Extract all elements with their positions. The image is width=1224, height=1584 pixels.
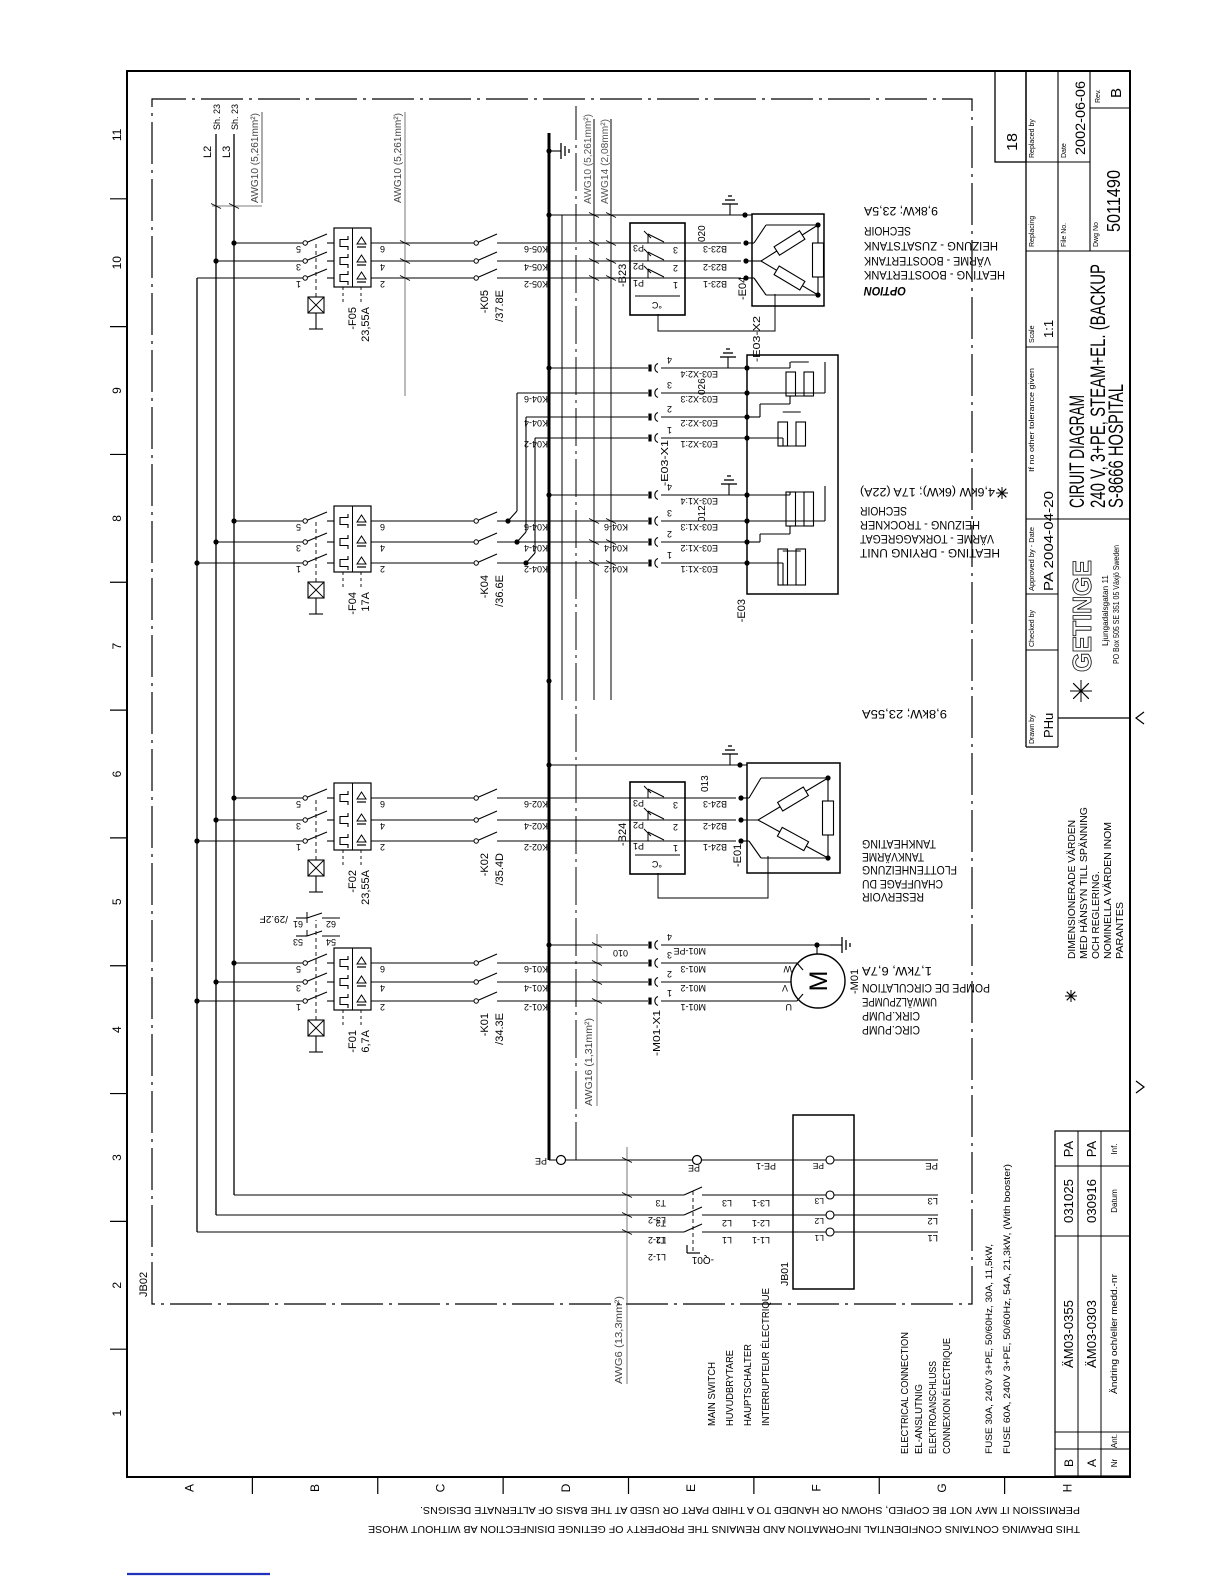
E03 bank X1 wiring [744,560,749,565]
E03 heater bank X2 resistors [778,422,788,446]
fuse -F02 breaker box [334,783,371,850]
incoming supply stubs L1 L2 L3 PE [854,1231,938,1233]
svg-text:B: B [308,1484,322,1492]
title block sheet-total box 18 [995,71,1026,162]
svg-text:P1: P1 [633,278,644,288]
svg-text:VÄRME - TORKAGGREGAT: VÄRME - TORKAGGREGAT [859,532,994,546]
svg-text:G: G [935,1483,949,1492]
svg-text:9,8kW; 23,5A: 9,8kW; 23,5A [864,204,938,218]
svg-text:9: 9 [110,387,124,394]
revision table outline [1055,1131,1130,1476]
svg-text:K04-6: K04-6 [604,522,628,532]
svg-text:6: 6 [380,799,385,809]
svg-text:E03-X1:3: E03-X1:3 [680,522,718,532]
svg-text:-F04: -F04 [347,592,359,615]
svg-text:013: 013 [700,775,711,792]
svg-text:F: F [810,1484,824,1491]
thermostat -B24 box [630,782,685,874]
svg-text:/37.8E: /37.8E [494,290,506,322]
svg-text:4: 4 [667,482,672,492]
svg-text:-M01: -M01 [849,969,861,994]
-B23 sensor cell [635,295,680,297]
svg-text:TANKHEATING: TANKHEATING [862,837,936,851]
svg-text:DIMENSIONERADE VÄRDEN: DIMENSIONERADE VÄRDEN [1066,820,1078,959]
svg-text:6: 6 [380,964,385,974]
svg-text:Drawn by: Drawn by [1029,714,1036,744]
svg-text:-F01: -F01 [347,1030,359,1053]
svg-text:L3: L3 [722,1198,732,1208]
svg-text:L1-1: L1-1 [752,1235,770,1245]
svg-text:L3-2: L3-2 [648,1215,666,1225]
svg-text:L3-1: L3-1 [752,1198,770,1208]
svg-text:P2: P2 [633,820,644,830]
PE bus thick [548,133,551,1160]
svg-text:B24-2: B24-2 [703,821,727,831]
E03 heater bank X1 resistors [778,549,788,585]
supply riser wires L1 L2 L3 [197,1231,684,1233]
Q01 handle [687,1252,700,1254]
svg-text:Datum: Datum [1110,1189,1119,1213]
svg-text:1: 1 [110,1409,124,1416]
contactor -K02 contacts [474,839,478,843]
svg-text:U: U [786,1002,793,1012]
fuse -F04 linkage dashed [315,521,317,582]
svg-text:4: 4 [667,932,672,942]
fuse -F05 operator square [308,297,324,313]
svg-text:L2: L2 [927,1215,938,1226]
svg-text:1:1: 1:1 [1041,320,1056,338]
-B23 contact pole 2 [500,260,630,262]
svg-text:2: 2 [110,1282,124,1289]
svg-text:PHu: PHu [1041,713,1056,738]
svg-text:23,55A: 23,55A [360,306,372,342]
svg-text:Rev.: Rev. [1095,89,1102,103]
svg-text:3: 3 [667,380,672,390]
svg-text:UMWÄLZPUMPE: UMWÄLZPUMPE [862,995,937,1009]
svg-text:B23-3: B23-3 [703,244,727,254]
bus L3 [233,134,235,1195]
svg-text:AWG10 (5,261mm²): AWG10 (5,261mm²) [582,114,594,204]
svg-text:1: 1 [296,564,301,574]
svg-text:AWG14 (2,08mm²): AWG14 (2,08mm²) [599,119,611,204]
-B24 sensor cell [635,854,680,856]
fuse -F01 breaker box [334,948,371,1010]
svg-text:K04-4: K04-4 [604,543,628,553]
svg-text:AWG16 (1,31mm²): AWG16 (1,31mm²) [583,1018,595,1106]
svg-text:3: 3 [296,262,301,272]
branch -K02 phase wires upper [197,840,303,842]
branch -K01 phase wires upper [197,1000,303,1002]
svg-text:INTERRUPTEUR ÉLECTRIQUE: INTERRUPTEUR ÉLECTRIQUE [759,1288,772,1426]
svg-text:C: C [433,1483,447,1492]
svg-text:2: 2 [380,842,385,852]
F01 auxiliary contact NC 61-62 [296,917,307,919]
svg-text:6: 6 [380,244,385,254]
svg-text:PARANTES: PARANTES [1114,902,1126,959]
Q01 linkage dashed line [692,1190,694,1251]
svg-text:K05-6: K05-6 [524,244,548,254]
control wire from B24 [561,215,563,700]
svg-text:L1: L1 [927,1232,938,1243]
svg-text:020: 020 [697,225,708,242]
svg-text:V: V [782,983,788,993]
F01 auxiliary contact NO 53-54 [296,935,307,937]
svg-text:030916: 030916 [1084,1179,1099,1223]
svg-text:HEATING - DRYING UNIT: HEATING - DRYING UNIT [859,546,1000,560]
branch -K01 bus taps [194,998,199,1003]
svg-text:MED HÄNSYN TILL SPÄNNING: MED HÄNSYN TILL SPÄNNING [1078,807,1090,959]
svg-text:K02-6: K02-6 [524,799,548,809]
fuse -F05 label dashes [342,287,344,304]
svg-text:PE-1: PE-1 [756,1161,776,1171]
svg-text:4,6kW (6kW); 17A (22A): 4,6kW (6kW); 17A (22A) [860,485,995,499]
svg-text:Scale: Scale [1029,325,1036,343]
thermostat -B23 box [630,223,685,315]
svg-text:L1: L1 [722,1235,732,1245]
B23 output wire labels [685,277,741,279]
heater -E04 resistor left [761,261,777,270]
svg-text:3: 3 [296,543,301,553]
svg-text:SECHOIR: SECHOIR [864,224,911,238]
svg-text:SECHOIR: SECHOIR [860,504,907,518]
svg-text:PERMISSION IT MAY NOT BE COPIE: PERMISSION IT MAY NOT BE COPIED, SHOWN O… [420,1504,1080,1515]
svg-text:2: 2 [667,969,672,979]
sheet border frame [127,71,1130,1477]
branch -K04 bus taps [194,560,199,565]
svg-text:-K02: -K02 [479,853,491,876]
fuse -F02 label dashes [342,850,344,867]
fuse -F05 linkage dashed [315,243,317,297]
svg-text:K02-4: K02-4 [524,821,548,831]
svg-text:AWG10 (5,261mm²): AWG10 (5,261mm²) [392,113,404,203]
svg-text:010: 010 [613,948,628,958]
svg-text:2002-06-06: 2002-06-06 [1073,81,1088,155]
svg-text:TANKVÄRME: TANKVÄRME [862,850,924,864]
svg-text:-M01-X1: -M01-X1 [651,1010,663,1056]
contactor -K04 contacts [474,561,478,565]
svg-text:L2-2: L2-2 [648,1235,666,1245]
svg-text:PA: PA [1084,1140,1099,1157]
svg-text:PE: PE [535,1156,547,1166]
heater -E01 delta wiring [741,819,758,821]
svg-text:2: 2 [667,404,672,414]
svg-text:B23-1: B23-1 [703,279,727,289]
svg-text:M: M [805,971,833,992]
svg-text:B23-2: B23-2 [703,262,727,272]
svg-text:E03-X2:4: E03-X2:4 [680,369,718,379]
svg-text:A: A [183,1484,197,1492]
svg-text:-K04: -K04 [479,575,491,598]
branch -K05 bus taps [213,258,218,263]
svg-text:7: 7 [110,643,124,650]
AWG10 gauge callout on L2 L3 feeders [212,205,262,207]
heater -E04 resistor right [761,251,777,261]
svg-text:2: 2 [667,529,672,539]
svg-text:FUSE 60A, 240V 3+PE, 50/60Hz,: FUSE 60A, 240V 3+PE, 50/60Hz, 54A, 21,3k… [1002,1164,1013,1454]
svg-text:10: 10 [110,256,124,270]
motor M01 circle [791,954,845,1008]
E03 annotation asterisk [1001,487,1003,499]
fuse -F05 breaker box [334,228,371,287]
svg-text:°C: °C [651,859,662,869]
JB01 terminal circles [826,1228,834,1236]
svg-text:W: W [783,964,792,974]
svg-text:-E01: -E01 [732,844,744,867]
svg-text:P3: P3 [633,243,644,253]
contactor -K01 contacts [474,999,478,1003]
long dash-dot boundary line [575,106,577,1160]
svg-text:4: 4 [667,355,672,365]
svg-text:B24-1: B24-1 [703,842,727,852]
svg-text:Sh. 23: Sh. 23 [212,104,222,130]
svg-text:/35.4D: /35.4D [494,853,506,885]
svg-text:9,8kW; 23,55A: 9,8kW; 23,55A [862,707,947,721]
svg-text:1: 1 [296,1002,301,1012]
svg-text:1: 1 [673,843,678,853]
svg-text:5011490: 5011490 [1104,170,1124,232]
svg-text:4: 4 [380,983,385,993]
svg-text:B: B [1062,1459,1076,1467]
-B24 contact pole 3 [500,797,630,799]
svg-text:026: 026 [697,378,708,395]
E03 bank X2 wiring [744,435,749,440]
svg-text:1: 1 [667,425,672,435]
-B24 contact pole 2 [500,819,630,821]
svg-text:L3: L3 [814,1196,824,1206]
B24 output wire labels [685,840,736,842]
svg-text:ÄM03-0355: ÄM03-0355 [1061,1300,1076,1368]
svg-text:HAUPTSCHALTER: HAUPTSCHALTER [742,1344,754,1426]
heater -E01 resistor left [758,820,780,832]
svg-text:-K05: -K05 [479,290,491,313]
-B23 contact pole 3 [500,242,630,244]
svg-text:3: 3 [673,800,678,810]
svg-text:E03-X1:2: E03-X1:2 [680,543,718,553]
svg-text:Dwg No: Dwg No [1093,222,1100,247]
svg-text:M01-PE: M01-PE [673,946,706,956]
title block outline [1025,71,1027,747]
svg-text:OPTION: OPTION [864,284,906,298]
svg-text:ELECTRICAL CONNECTION: ELECTRICAL CONNECTION [899,1332,911,1454]
svg-text:031025: 031025 [1061,1179,1076,1223]
fuse -F01 disconnect contacts [303,999,307,1003]
PE riser wire [549,1159,830,1161]
svg-text:3: 3 [667,950,672,960]
svg-text:-K01: -K01 [479,1013,491,1036]
svg-text:B24-3: B24-3 [703,799,727,809]
getinge logo mark [1080,680,1082,702]
branch -K04 phase wires upper [197,562,303,564]
svg-text:P3: P3 [633,798,644,808]
svg-text:E03-X1:1: E03-X1:1 [680,564,718,574]
svg-text:-E03: -E03 [736,599,748,622]
svg-text:L1-2: L1-2 [648,1252,666,1262]
E04 PE drop wire 020 [546,212,551,217]
svg-text:-F05: -F05 [347,307,359,330]
E03 heater enclosure [747,355,838,594]
svg-text:K01-2: K01-2 [524,1002,548,1012]
PE main terminal circle [557,1156,566,1165]
svg-text:GETINGE: GETINGE [1067,560,1097,672]
svg-text:3: 3 [110,1154,124,1161]
svg-text:HEIZUNG - TROCKNER: HEIZUNG - TROCKNER [860,518,980,532]
heater -E04 delta wiring [746,260,761,262]
svg-text:K04-4: K04-4 [524,543,548,553]
svg-text:Date: Date [1061,143,1068,158]
cable crossing slashes on control wires [589,561,599,566]
blue reference line bottom-left of portrait page [127,1573,270,1575]
svg-text:Checked by: Checked by [1029,610,1036,647]
svg-text:5: 5 [296,799,301,809]
svg-text:K05-4: K05-4 [524,262,548,272]
svg-text:K04-6: K04-6 [524,394,548,404]
column ticks top edge [110,1348,127,1350]
E01 PE drop wire 013 [546,762,551,767]
svg-text:B: B [1108,88,1125,98]
svg-text:P2: P2 [633,261,644,271]
AWG10 gauge callout on K05 branch wires [404,112,406,396]
svg-text:3: 3 [296,983,301,993]
control wires with AWG labels [593,119,595,700]
JB01 junction box [793,1115,854,1289]
contactor -K05 contacts [474,276,478,280]
svg-text:HEATING - BOOSTERTANK: HEATING - BOOSTERTANK [864,268,1005,282]
svg-text:K04-4: K04-4 [524,418,548,428]
svg-text:Ljungadalsgatan 11: Ljungadalsgatan 11 [1101,574,1110,646]
svg-text:PE: PE [812,1161,824,1171]
svg-text:5: 5 [296,244,301,254]
svg-text:ÄM03-0303: ÄM03-0303 [1084,1300,1099,1368]
svg-text:POMPE DE CIRCULATION: POMPE DE CIRCULATION [862,981,990,995]
-B23 contact pole 1 [500,277,630,279]
fuse -F02 linkage dashed [315,798,317,860]
title block row lines [1057,71,1059,747]
M01 PE wire 010 [546,942,551,947]
svg-text:AWG6 (13,3mm²): AWG6 (13,3mm²) [613,1296,625,1384]
note asterisk mark [1070,990,1072,1002]
K04 jumpers to E03-X2 [523,560,528,565]
svg-text:1: 1 [296,842,301,852]
fuse -F04 label dashes [342,572,344,589]
svg-text:4: 4 [380,543,385,553]
svg-text:L1: L1 [814,1233,824,1243]
svg-text:PO Box 505 SE 351 05 Växjö Swe: PO Box 505 SE 351 05 Växjö Sweden [1112,545,1121,664]
svg-text:THIS DRAWING CONTAINS CONFIDEN: THIS DRAWING CONTAINS CONFIDENTIAL INFOR… [368,1523,1080,1534]
svg-text:K05-2: K05-2 [524,279,548,289]
svg-text:K04-2: K04-2 [524,564,548,574]
svg-text:11: 11 [110,128,124,141]
JB02 junction box dashed enclosure [152,99,972,1304]
svg-text:K04-6: K04-6 [524,522,548,532]
svg-text:MAIN SWITCH: MAIN SWITCH [706,1362,718,1426]
title block column lines [1026,649,1058,651]
svg-text:File No.: File No. [1061,223,1068,247]
B23 capillary line [658,294,775,331]
svg-text:PE: PE [925,1160,938,1171]
svg-text:E03-X2:1: E03-X2:1 [680,439,718,449]
svg-text:2: 2 [380,279,385,289]
main switch Q01 contacts [684,1224,702,1232]
svg-text:M01-1: M01-1 [680,1002,706,1012]
svg-text:-B24: -B24 [617,823,629,846]
svg-text:H: H [1060,1484,1074,1493]
svg-text:Replacing: Replacing [1029,216,1036,247]
PE terminal circle at switch level [693,1156,702,1165]
svg-text:L2-1: L2-1 [752,1218,770,1228]
svg-text:6: 6 [380,522,385,532]
svg-text:K01-6: K01-6 [524,964,548,974]
heater -E01 enclosure [747,763,840,873]
B24 capillary line [658,856,768,898]
svg-text:Nr: Nr [1110,1458,1119,1467]
svg-text:/34.3E: /34.3E [494,1013,506,1045]
svg-text:3: 3 [673,245,678,255]
svg-text:4: 4 [380,262,385,272]
svg-text:L3: L3 [927,1195,938,1206]
svg-text:K04-2: K04-2 [604,564,628,574]
svg-text:5: 5 [296,522,301,532]
svg-text:NOMINELLA VÄRDEN INOM: NOMINELLA VÄRDEN INOM [1102,822,1114,959]
svg-text:L2: L2 [202,146,214,158]
svg-text:HUVUDBRYTARE: HUVUDBRYTARE [724,1350,736,1426]
heater -E04 resistor bottom [817,277,819,295]
svg-text:JB01: JB01 [779,1262,791,1286]
PE bus earth symbol [546,148,551,153]
svg-text:4: 4 [110,1026,124,1033]
fuse -F04 disconnect contacts [303,561,307,565]
fuse -F01 operator square [308,1020,324,1036]
svg-text:FUSE 30A, 240V 3+PE, 50/60Hz,: FUSE 30A, 240V 3+PE, 50/60Hz, 30A, 11,5k… [984,1244,995,1454]
svg-text:L2: L2 [722,1218,732,1228]
row ticks left edge [251,1477,253,1494]
svg-text:CIRC.PUMP: CIRC.PUMP [862,1023,920,1037]
heater -E01 resistor bottom [827,835,829,858]
svg-text:2: 2 [380,1002,385,1012]
fuse -F02 disconnect contacts [303,839,307,843]
svg-text:L2: L2 [814,1216,824,1226]
svg-text:6,7A: 6,7A [360,1029,372,1052]
svg-text:2: 2 [673,822,678,832]
E03-X2 PE wire 026 [546,365,551,370]
svg-text:Replaced by: Replaced by [1029,119,1036,158]
svg-text:-Q01: -Q01 [691,1254,714,1265]
fuse -F01 label dashes [342,1010,344,1027]
svg-text:62: 62 [326,919,336,929]
svg-text:-F02: -F02 [347,870,359,893]
svg-text:°C: °C [651,300,662,310]
branch -K02 bus taps [194,838,199,843]
svg-text:5: 5 [110,898,124,905]
-B24 contact pole 1 [500,840,630,842]
svg-text:Ant.: Ant. [1110,1434,1119,1448]
svg-text:K01-4: K01-4 [524,983,548,993]
svg-text:OCH REGLERING.: OCH REGLERING. [1090,871,1102,959]
svg-text:JB02: JB02 [138,1272,150,1297]
svg-text:17A: 17A [360,591,372,611]
svg-text:1,7kW, 6,7A: 1,7kW, 6,7A [862,964,932,978]
svg-text:-B23: -B23 [617,264,629,287]
heater -E04 feed dots [743,275,748,280]
motor phase entries U V W [770,1000,797,1002]
svg-text:1: 1 [296,279,301,289]
svg-text:2: 2 [380,564,385,574]
svg-text:A: A [1085,1459,1099,1467]
svg-text:T3: T3 [655,1198,666,1208]
fold mark chevron left [1136,1081,1144,1093]
svg-text:D: D [559,1483,573,1492]
svg-text:23,55A: 23,55A [360,869,372,905]
svg-text:If no other tolerance given: If no other tolerance given [1029,368,1036,472]
